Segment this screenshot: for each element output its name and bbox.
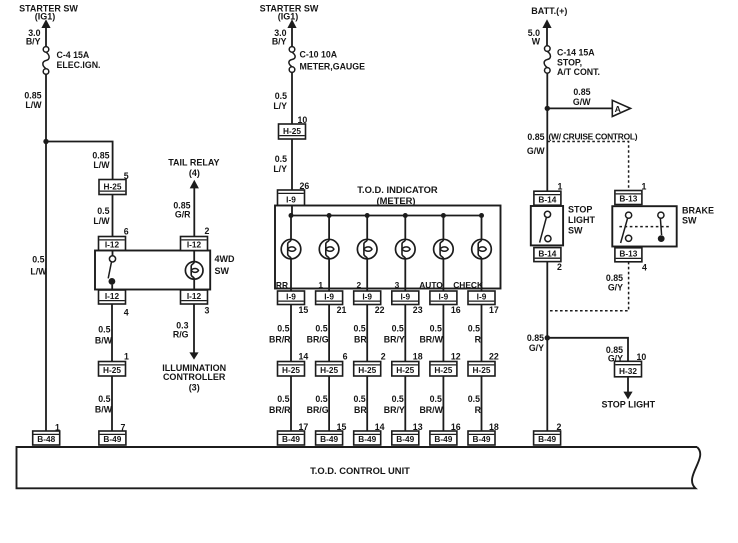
arrow to starter sw middle <box>287 19 296 28</box>
brake switch mechanical link dashed <box>619 226 669 228</box>
wire H-25 1 to B-49 7 <box>111 376 113 431</box>
svg-text:METER,GAUGE: METER,GAUGE <box>300 62 366 72</box>
wire H-25 to B-49 col5 <box>442 376 444 431</box>
svg-text:STOP,: STOP, <box>557 57 582 67</box>
pin 5 of H-25 <box>124 171 129 181</box>
label 4WD SW <box>215 254 236 276</box>
connector I-9 pin 16 <box>430 291 457 305</box>
svg-text:H-25: H-25 <box>283 126 301 136</box>
pin 22 of H-25 col6 <box>489 352 499 362</box>
junction left main <box>43 139 48 144</box>
svg-text:L/W: L/W <box>93 216 110 226</box>
svg-text:0.5: 0.5 <box>430 394 442 404</box>
svg-text:H-25: H-25 <box>104 181 122 191</box>
wire I-12 4 to H-25 1 <box>111 304 113 362</box>
label C-10 10A METER,GAUGE <box>300 50 366 72</box>
connector B-48 pin 1 <box>33 431 60 445</box>
svg-text:1: 1 <box>558 182 563 192</box>
4WD SW switch contact <box>108 256 115 285</box>
wire 3.0 B/Y middle <box>291 27 293 46</box>
connector I-9 pin 21 <box>316 291 343 305</box>
bus junction col3 <box>365 213 370 218</box>
T.O.D. control unit box <box>17 447 701 488</box>
svg-text:0.5: 0.5 <box>392 394 404 404</box>
svg-text:0.5: 0.5 <box>392 324 404 334</box>
svg-text:I-9: I-9 <box>286 195 296 205</box>
T.O.D. indicator meter box <box>275 206 501 289</box>
svg-text:I-9: I-9 <box>477 291 487 301</box>
arrow to tail relay <box>190 180 199 189</box>
svg-text:R: R <box>475 405 482 415</box>
connector I-12 pin 6 <box>99 237 126 251</box>
wire label 0.5 L/W left <box>30 255 47 277</box>
wire I-9 to H-25 col4 <box>404 305 406 362</box>
wire I-12 3 to illumination arrow <box>193 304 195 353</box>
wire label 0.5 R lower col6 <box>468 394 482 415</box>
pin 6 of I-12 <box>124 227 129 237</box>
wire label 0.85 G/R <box>173 201 191 220</box>
wire label 0.5 L/Y upper <box>273 91 287 111</box>
svg-text:17: 17 <box>489 305 499 315</box>
svg-text:I-9: I-9 <box>286 291 296 301</box>
wire I-9 to H-25 col3 <box>366 305 368 362</box>
svg-text:I-9: I-9 <box>400 291 410 301</box>
connector H-25 pin 22 <box>468 362 495 377</box>
svg-text:0.5: 0.5 <box>430 324 442 334</box>
connector B-49 pin 17 <box>278 431 305 445</box>
connector H-25 pin 12 <box>430 362 457 377</box>
svg-text:18: 18 <box>413 352 423 362</box>
svg-text:BR/W: BR/W <box>419 335 443 345</box>
svg-text:B-48: B-48 <box>37 434 55 444</box>
wire B-14 2 to B-49 2 <box>546 262 548 432</box>
svg-text:0.5: 0.5 <box>32 255 44 265</box>
svg-text:0.85: 0.85 <box>606 273 623 283</box>
pin 2 of I-12 <box>205 226 210 236</box>
wire I-9 to H-25 col6 <box>481 305 483 362</box>
pin 13 of B-49 col4 <box>413 422 423 432</box>
svg-text:4: 4 <box>642 263 647 273</box>
svg-text:1: 1 <box>124 352 129 362</box>
svg-text:I-12: I-12 <box>105 291 120 301</box>
svg-text:T.O.D. INDICATOR: T.O.D. INDICATOR <box>357 184 438 195</box>
svg-text:T.O.D. CONTROL UNIT: T.O.D. CONTROL UNIT <box>310 465 410 476</box>
wire tail relay to I-12 2 <box>193 188 195 237</box>
svg-text:0.5: 0.5 <box>315 324 327 334</box>
svg-text:BR/Y: BR/Y <box>384 405 405 415</box>
svg-text:B-14: B-14 <box>538 194 556 204</box>
bus junction col4 <box>403 213 408 218</box>
wire label 0.5 BR/R lower col1 <box>269 394 291 415</box>
pin 1 of H-25 <box>124 352 129 362</box>
wire label 0.5 BR lower col3 <box>353 394 367 415</box>
svg-text:2: 2 <box>357 280 362 290</box>
svg-text:0.5: 0.5 <box>275 91 287 101</box>
wire label 0.5 BR/G upper col2 <box>307 324 329 345</box>
svg-text:R: R <box>475 335 482 345</box>
svg-text:15: 15 <box>299 305 309 315</box>
connector B-49 pin 13 <box>392 431 419 445</box>
svg-text:L/Y: L/Y <box>273 101 287 111</box>
wire fuse to H-25 10 <box>291 72 293 124</box>
svg-text:BR/G: BR/G <box>307 405 329 415</box>
svg-text:0.85: 0.85 <box>24 91 41 101</box>
pin 3 of I-12 <box>205 306 210 316</box>
pin 6 of H-25 col2 <box>343 352 348 362</box>
fuse C-10 10A <box>289 47 295 73</box>
connector B-14 pin 1 <box>534 191 561 205</box>
pin 4 of B-13 <box>642 263 647 273</box>
connector H-25 pin 18 <box>392 362 419 377</box>
wire stub lamp bottom <box>193 279 195 289</box>
svg-text:BR/W: BR/W <box>419 405 443 415</box>
svg-text:A/T CONT.: A/T CONT. <box>557 67 600 77</box>
svg-text:B/W: B/W <box>95 336 113 346</box>
wire H-25 to B-49 col6 <box>481 376 483 431</box>
svg-text:B-49: B-49 <box>538 434 556 444</box>
fuse C-14 15A <box>544 46 550 73</box>
wire bus to lamp col5 <box>442 216 444 240</box>
svg-text:2: 2 <box>205 226 210 236</box>
wire H-25 5 to I-12 6 <box>112 195 114 237</box>
wire H-25 to B-49 col3 <box>366 376 368 431</box>
connector I-9 pin 26 <box>278 190 305 206</box>
svg-text:B-49: B-49 <box>396 434 414 444</box>
wire bus to lamp col6 <box>481 216 483 240</box>
svg-text:(IG1): (IG1) <box>35 12 56 22</box>
wire branch to H-32 <box>547 338 628 362</box>
svg-text:H-25: H-25 <box>358 365 376 375</box>
svg-text:0.5: 0.5 <box>353 324 365 334</box>
svg-text:C-14 15A: C-14 15A <box>557 48 595 58</box>
svg-text:B-13: B-13 <box>619 249 637 259</box>
pin 18 of H-25 col4 <box>413 352 423 362</box>
svg-text:I-9: I-9 <box>362 291 372 301</box>
wire H-25 10 to I-9 26 <box>291 139 293 190</box>
arrow to stop light <box>623 392 632 400</box>
connector I-9 pin 23 <box>392 291 419 305</box>
wire bus to lamp col4 <box>404 216 406 240</box>
svg-text:C-10 10A: C-10 10A <box>300 50 338 60</box>
pin 1 of B-14 <box>558 182 563 192</box>
svg-text:G/R: G/R <box>175 210 191 220</box>
indicator lamp RR <box>281 239 301 259</box>
label C-4 15A ELEC.IGN. <box>57 50 101 70</box>
wire label 0.5 BR/Y upper col4 <box>384 324 405 345</box>
svg-text:23: 23 <box>413 305 423 315</box>
brake switch right contact <box>658 212 665 242</box>
pin 2 of B-14 <box>557 262 562 272</box>
lamp position labels RR 1 2 3 AUTO CHECK <box>276 280 483 290</box>
junction to connector A <box>545 106 550 111</box>
wire lamp 3 down to I-9 <box>404 259 406 291</box>
svg-text:H-32: H-32 <box>619 366 637 376</box>
svg-text:BR/Y: BR/Y <box>384 335 405 345</box>
svg-text:14: 14 <box>299 352 309 362</box>
svg-text:BATT.(+): BATT.(+) <box>531 6 567 16</box>
connector B-49 pin 2 <box>534 431 561 445</box>
svg-text:ELEC.IGN.: ELEC.IGN. <box>57 60 101 70</box>
wire label 0.5 L/Y lower <box>273 154 287 174</box>
wire label 0.5 BR/W lower col5 <box>419 394 443 415</box>
label STOP LIGHT <box>601 400 655 410</box>
wire label 5.0 W <box>528 28 541 47</box>
connector H-32 pin 10 <box>615 361 642 377</box>
svg-text:(IG1): (IG1) <box>278 12 299 22</box>
svg-text:W: W <box>532 37 541 47</box>
pin 26 of I-9 <box>300 181 310 191</box>
svg-text:G/W: G/W <box>527 146 545 156</box>
wire lamp RR down to I-9 <box>290 259 292 291</box>
bus junction col1 <box>289 213 294 218</box>
indicator lamp 1 <box>319 239 339 259</box>
label STARTER SW (IG1) middle <box>260 3 319 21</box>
svg-text:4: 4 <box>124 308 129 318</box>
svg-text:0.5: 0.5 <box>277 324 289 334</box>
wire H-25 to B-49 col4 <box>404 376 406 431</box>
wire label 0.85 G/W cruise <box>527 132 545 156</box>
pin 10 of H-32 <box>637 352 647 362</box>
wire label 0.5 R upper col6 <box>468 324 482 345</box>
svg-text:3: 3 <box>395 280 400 290</box>
svg-text:RR: RR <box>276 280 288 290</box>
bus junction col5 <box>441 213 446 218</box>
svg-text:0.85: 0.85 <box>527 333 544 343</box>
arrow to battery <box>542 19 551 28</box>
svg-text:A: A <box>615 104 621 114</box>
svg-text:I-12: I-12 <box>105 240 120 250</box>
arrow to starter sw left <box>41 19 50 28</box>
label C-14 15A STOP, A/T CONT. <box>557 48 600 77</box>
svg-text:0.5: 0.5 <box>353 394 365 404</box>
wire label 0.5 B/W upper <box>95 325 113 346</box>
pin 10 of H-25 <box>298 115 308 125</box>
wire label 0.85 G/Y main <box>527 333 544 353</box>
svg-text:G/W: G/W <box>573 97 591 107</box>
wire dashed B-13 4 return <box>548 262 629 311</box>
connector H-25 pin 14 <box>278 362 305 377</box>
svg-text:6: 6 <box>124 227 129 237</box>
wire label 0.3 R/G <box>173 321 189 340</box>
svg-text:B-49: B-49 <box>103 434 121 444</box>
pin 21 of I-9 col2 <box>337 305 347 315</box>
svg-text:0.85: 0.85 <box>92 151 109 161</box>
bus junction col2 <box>327 213 332 218</box>
svg-text:0.85: 0.85 <box>527 132 544 142</box>
wire stub lamp top <box>193 251 195 262</box>
label BRAKE SW <box>682 206 714 226</box>
svg-text:12: 12 <box>451 352 461 362</box>
svg-text:16: 16 <box>451 305 461 315</box>
wire lamp 2 down to I-9 <box>366 259 368 291</box>
connector H-25 pin 5 <box>99 180 126 195</box>
pin 22 of I-9 col3 <box>375 305 385 315</box>
connector I-9 pin 17 <box>468 291 495 305</box>
wire 3.0 B/Y left <box>45 27 47 46</box>
wire label 3.0 B/Y middle <box>272 28 287 47</box>
indicator lamp CHECK <box>472 239 492 259</box>
indicator lamp 3 <box>396 239 416 259</box>
svg-text:H-25: H-25 <box>103 365 121 375</box>
svg-text:(3): (3) <box>189 383 200 393</box>
pin 1 of B-48 <box>55 423 60 433</box>
wire label 0.85 L/W branch <box>92 151 110 171</box>
wire bus inside indicator <box>291 215 482 217</box>
brake switch left contact <box>621 212 632 243</box>
label STOP LIGHT SW <box>568 205 595 236</box>
wire lamp AUTO down to I-9 <box>442 259 444 291</box>
connector B-49 pin 15 <box>316 431 343 445</box>
wire label 0.5 BR/W upper col5 <box>419 324 443 345</box>
svg-text:3: 3 <box>205 306 210 316</box>
pin 23 of I-9 col4 <box>413 305 423 315</box>
pin 17 of B-49 col1 <box>299 422 309 432</box>
pin 14 of B-49 col3 <box>375 422 385 432</box>
wire label 0.85 G/Y dashed <box>606 273 623 293</box>
svg-text:0.5: 0.5 <box>468 394 480 404</box>
svg-text:R/G: R/G <box>173 330 189 340</box>
pin 14 of H-25 col1 <box>299 352 309 362</box>
wire label 0.5 BR/R upper col1 <box>269 324 291 345</box>
svg-text:21: 21 <box>337 305 347 315</box>
svg-text:LIGHT: LIGHT <box>568 215 595 225</box>
brake switch box <box>612 206 676 246</box>
svg-text:AUTO: AUTO <box>419 280 443 290</box>
connector I-12 pin 4 <box>99 290 126 304</box>
pin 12 of H-25 col5 <box>451 352 461 362</box>
svg-text:B-49: B-49 <box>320 434 338 444</box>
connector I-12 pin 2 <box>181 237 208 251</box>
4WD SW box <box>95 251 210 290</box>
connector B-13 pin 4 <box>615 248 642 262</box>
connector I-9 pin 22 <box>354 291 381 305</box>
pin 17 of I-9 col6 <box>489 305 499 315</box>
svg-text:(4): (4) <box>189 168 200 178</box>
svg-text:2: 2 <box>381 352 386 362</box>
wire stub switch top <box>112 251 114 256</box>
svg-text:G/Y: G/Y <box>529 343 544 353</box>
svg-text:BRAKE: BRAKE <box>682 206 714 216</box>
connector B-49 pin 18 <box>468 431 495 445</box>
wire bus to lamp col3 <box>366 216 368 240</box>
wire stub switch bottom <box>111 285 113 290</box>
svg-text:H-25: H-25 <box>320 365 338 375</box>
svg-text:H-25: H-25 <box>282 365 300 375</box>
connector I-9 pin 15 <box>278 291 305 305</box>
wire bus to lamp col1 <box>290 216 292 240</box>
wire 0.85 L/W left main <box>45 74 47 431</box>
svg-text:L/W: L/W <box>25 100 42 110</box>
wire label 0.85 G/W branch <box>573 87 591 107</box>
wire label 0.85 G/Y branch <box>606 345 623 364</box>
svg-text:(W/ CRUISE CONTROL): (W/ CRUISE CONTROL) <box>549 132 638 142</box>
connector B-49 pin 14 <box>354 431 381 445</box>
connector B-49 pin 7 <box>99 431 126 445</box>
connector H-25 pin 1 <box>99 362 126 377</box>
svg-text:B/Y: B/Y <box>272 37 287 47</box>
pin 2 of B-49 <box>557 422 562 432</box>
wire dashed cruise control to B-13 1 <box>547 142 628 191</box>
svg-text:1: 1 <box>318 280 323 290</box>
svg-text:0.5: 0.5 <box>315 394 327 404</box>
pin 15 of I-9 col1 <box>299 305 309 315</box>
svg-text:22: 22 <box>375 305 385 315</box>
connector B-49 pin 16 <box>430 431 457 445</box>
wire I-9 to H-25 col2 <box>328 305 330 362</box>
svg-text:BR/R: BR/R <box>269 335 291 345</box>
svg-text:2: 2 <box>557 262 562 272</box>
wire lamp 1 down to I-9 <box>328 259 330 291</box>
svg-text:0.5: 0.5 <box>277 394 289 404</box>
svg-text:0.85: 0.85 <box>573 87 590 97</box>
svg-text:B-49: B-49 <box>358 434 376 444</box>
svg-text:CONTROLLER: CONTROLLER <box>163 372 226 382</box>
connector H-25 pin 10 <box>279 124 306 139</box>
svg-text:H-25: H-25 <box>434 365 452 375</box>
wire 5.0 W <box>546 27 548 46</box>
connector H-25 pin 2 <box>354 362 381 377</box>
connector I-12 pin 3 <box>181 290 208 304</box>
wire label 0.5 BR/Y lower col4 <box>384 394 405 415</box>
svg-text:L/W: L/W <box>93 160 110 170</box>
wire I-9 to H-25 col1 <box>290 305 292 362</box>
stop light switch box <box>531 206 563 245</box>
svg-text:B-49: B-49 <box>434 434 452 444</box>
connector A triangle <box>612 100 630 116</box>
svg-text:0.5: 0.5 <box>98 394 110 404</box>
svg-text:I-12: I-12 <box>187 240 202 250</box>
indicator lamp AUTO <box>434 239 454 259</box>
svg-text:G/Y: G/Y <box>608 283 623 293</box>
bus junction col6 <box>479 213 484 218</box>
svg-text:L/Y: L/Y <box>273 164 287 174</box>
svg-text:B/Y: B/Y <box>26 37 41 47</box>
svg-text:0.5: 0.5 <box>98 325 110 335</box>
label TAIL RELAY (4) <box>168 158 219 178</box>
svg-text:6: 6 <box>343 352 348 362</box>
svg-text:CHECK: CHECK <box>453 280 483 290</box>
arrow to illumination controller <box>189 352 198 359</box>
pin 15 of B-49 col2 <box>337 422 347 432</box>
wire H-32 to stop light arrow <box>627 377 629 392</box>
svg-text:I-9: I-9 <box>324 291 334 301</box>
svg-text:22: 22 <box>489 352 499 362</box>
svg-text:0.5: 0.5 <box>275 154 287 164</box>
svg-text:4WD: 4WD <box>215 254 236 264</box>
wire I-9 to H-25 col5 <box>442 305 444 362</box>
svg-text:C-4 15A: C-4 15A <box>57 50 90 60</box>
svg-text:SW: SW <box>215 266 230 276</box>
wire label 0.5 B/W lower <box>95 394 113 415</box>
pin 1 of B-13 <box>642 182 647 192</box>
svg-text:H-25: H-25 <box>396 365 414 375</box>
wire label 3.0 B/Y <box>26 28 41 47</box>
svg-text:STOP LIGHT: STOP LIGHT <box>601 400 655 410</box>
svg-text:STOP: STOP <box>568 205 592 215</box>
svg-text:B-49: B-49 <box>473 434 491 444</box>
wire H-25 to B-49 col1 <box>290 376 292 431</box>
fuse C-4 15A <box>43 47 49 75</box>
svg-text:BR: BR <box>354 335 367 345</box>
connector H-25 pin 6 <box>316 362 343 377</box>
junction stop light branch <box>545 335 550 340</box>
pin 7 of B-49 <box>121 423 126 433</box>
pin 18 of B-49 col6 <box>489 422 499 432</box>
wire bus to lamp col2 <box>328 216 330 240</box>
svg-text:0.5: 0.5 <box>97 206 109 216</box>
svg-text:SW: SW <box>568 226 583 236</box>
wire branch junction to H-25 pin 5 <box>47 142 113 180</box>
